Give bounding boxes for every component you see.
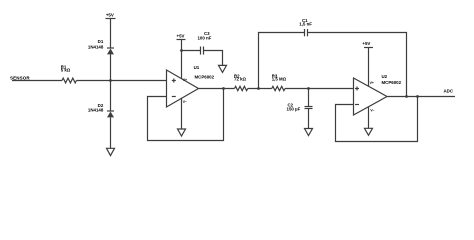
node diode clamp junction [109,79,112,82]
svg-text:72 kΩ: 72 kΩ [234,77,247,82]
+5V supply U1 [177,39,186,41]
wire to C2 [308,89,310,107]
svg-text:+5V: +5V [177,33,185,38]
svg-text:MCP6002: MCP6002 [382,80,402,85]
svg-text:V+: V+ [183,78,187,82]
U1 V- pin wire [181,98,183,129]
ground (U2) [365,128,373,135]
resistor R2 [235,86,248,90]
U2 minus input marker [355,104,359,106]
svg-text:V−: V− [183,100,187,104]
capacitor C2 [305,107,313,109]
capacitor C3 [201,47,204,55]
wire U2 output to ADC [387,96,455,98]
svg-text:SENSOR: SENSOR [10,76,30,81]
wire C1 branch left vertical [259,33,305,89]
resistor R3 [272,86,285,90]
svg-text:1N4148: 1N4148 [88,108,104,113]
ground (C3) [219,65,227,72]
wire U1 feedback loop [148,89,224,141]
wire C2 to ground [308,109,310,129]
+5V supply U2 [364,47,373,49]
node C3 branch [180,49,183,52]
op-amp U2 [354,78,388,115]
wire to C3 [182,50,201,52]
node C1 right junction [405,95,408,98]
wire R2 to R3 [248,88,272,90]
diode D2 [107,111,114,117]
svg-text:U1: U1 [194,65,200,70]
U1 minus input marker [172,96,176,98]
resistor R1 [62,78,76,83]
U1 V+ pin wire [181,40,183,79]
wire sensor input [12,80,62,82]
svg-text:U2: U2 [382,74,388,79]
wire R1 to U1 + input [76,80,166,82]
svg-text:100 nF: 100 nF [197,35,211,40]
svg-text:+5V: +5V [106,13,114,18]
svg-text:ADC: ADC [444,89,454,94]
wire C1 branch right vertical [308,33,407,97]
svg-text:V−: V− [370,108,374,112]
wire D2 to ground [110,117,112,148]
node C2 branch [307,87,310,90]
capacitor C1 [305,29,308,36]
svg-text:V+: V+ [370,81,374,85]
svg-text:1,5 nF: 1,5 nF [299,22,312,27]
wire C3 to ground [204,51,223,66]
node C1 branch left [257,87,260,90]
wire R3 to U2 + input [285,88,354,90]
op-amp U1 [167,70,199,107]
ground (U1) [178,129,186,136]
svg-text:1N4148: 1N4148 [88,44,104,49]
+5V supply left [106,19,116,49]
U2 V- pin wire [368,107,370,129]
svg-text:MCP6002: MCP6002 [195,74,215,79]
diode D1 [107,48,114,54]
U2 plus input marker [355,87,359,91]
svg-text:+5V: +5V [362,41,370,46]
ground (C2) [305,129,313,136]
node U2 feedback junction [416,95,419,98]
wire U1 output [199,88,235,90]
svg-text:5 kΩ: 5 kΩ [61,68,71,73]
ground (diode clamp) [107,148,115,155]
wire U2 feedback loop [336,97,418,142]
svg-text:1,5 MΩ: 1,5 MΩ [272,77,287,82]
wire D1 to D2 [110,54,112,111]
node U1 feedback junction [222,87,225,90]
U1 plus input marker [172,79,176,83]
svg-text:150 µF: 150 µF [287,106,301,111]
U2 V+ pin wire [368,48,370,87]
